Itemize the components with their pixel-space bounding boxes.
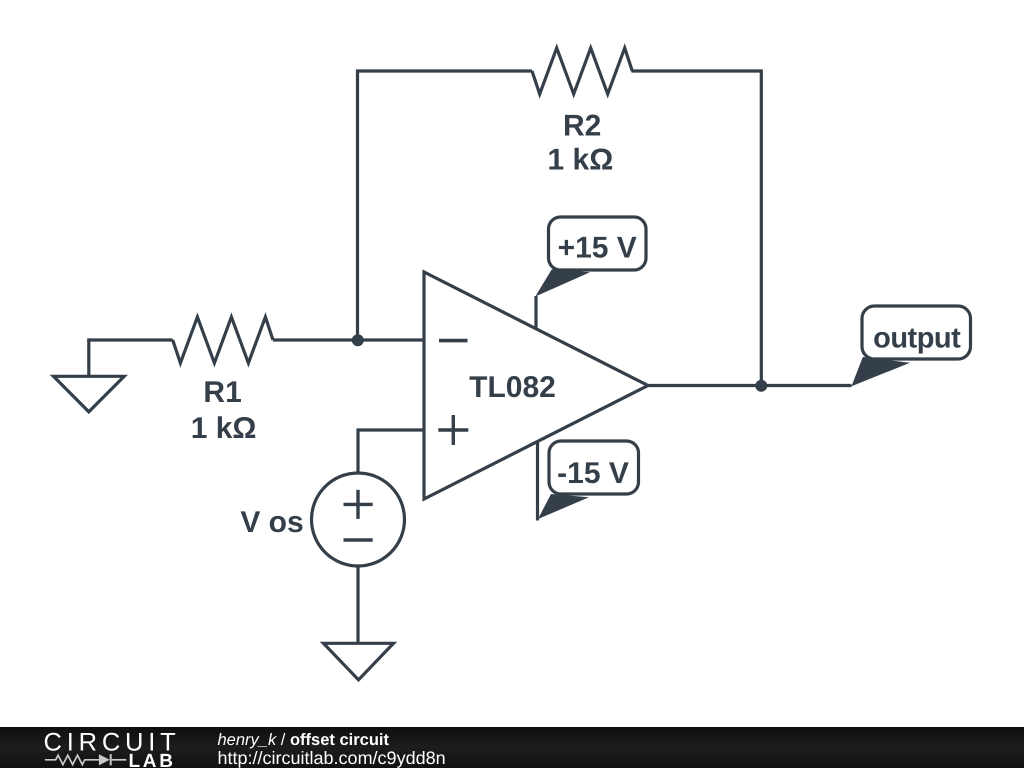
- svg-text:TL082: TL082: [469, 371, 556, 404]
- svg-text:R2: R2: [563, 110, 601, 143]
- svg-text:V os: V os: [240, 506, 303, 539]
- svg-text:output: output: [873, 323, 961, 355]
- svg-text:1 kΩ: 1 kΩ: [548, 144, 614, 177]
- svg-text:henry_k / offset circuit: henry_k / offset circuit: [218, 731, 390, 749]
- svg-text:+15 V: +15 V: [558, 232, 637, 265]
- svg-text:LAB: LAB: [129, 751, 176, 768]
- svg-text:1 kΩ: 1 kΩ: [191, 412, 257, 445]
- svg-text:http://circuitlab.com/c9ydd8n: http://circuitlab.com/c9ydd8n: [218, 748, 446, 768]
- svg-text:-15 V: -15 V: [557, 457, 629, 490]
- svg-text:R1: R1: [203, 376, 241, 409]
